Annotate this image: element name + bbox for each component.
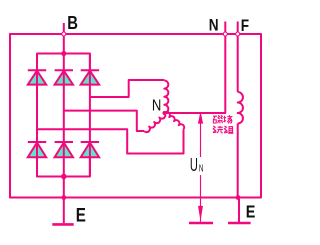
svg-text:N: N xyxy=(152,98,161,115)
junction bottom rail xyxy=(61,174,67,180)
diode VD3 (top row, right) xyxy=(81,70,99,84)
svg-text:E: E xyxy=(246,202,256,222)
wire N from star point to terminal xyxy=(165,34,226,113)
wire column1 through diodes xyxy=(36,54,38,177)
field winding L (磁场绕组) xyxy=(238,92,243,124)
wire F to field winding xyxy=(237,34,239,92)
diode VD5 (bottom row, middle) xyxy=(55,142,73,157)
terminal E right bar xyxy=(228,222,251,225)
junction border field xyxy=(236,195,241,200)
wire phase lead B xyxy=(64,111,144,131)
wire F stub xyxy=(237,22,239,35)
node star point N xyxy=(162,111,166,115)
junction border E left xyxy=(61,195,66,200)
wire E right lead xyxy=(238,198,240,223)
glyph 场 xyxy=(223,115,232,123)
ground bar middle (UN reference) xyxy=(189,222,213,225)
glyph 磁 xyxy=(213,115,223,123)
wire bottom rail xyxy=(37,157,90,176)
wire field winding to ground xyxy=(237,124,239,198)
diode VD6 (bottom row, right) xyxy=(81,142,99,157)
glyph 绕 xyxy=(213,126,223,133)
terminal E left bar xyxy=(52,223,73,226)
stator winding coil3 (lower-right diagonal) xyxy=(165,112,185,129)
svg-text:N: N xyxy=(209,16,219,35)
diode VD2 (top row, middle) xyxy=(55,70,73,84)
terminal F circle xyxy=(236,32,240,36)
svg-text:F: F xyxy=(241,16,249,35)
svg-text:N: N xyxy=(199,162,204,174)
diode VD1 (top row, left) xyxy=(28,70,46,84)
UN dimension arrow line xyxy=(199,114,203,222)
stator winding coil1 (vertical) xyxy=(164,81,168,113)
svg-text:E: E xyxy=(76,204,86,226)
wire phase lead C xyxy=(37,129,184,153)
stator winding coil2 (lower-left diagonal) xyxy=(144,113,165,132)
terminal B circle xyxy=(62,32,66,36)
svg-text:U: U xyxy=(190,155,198,176)
diode VD4 (bottom row, left) xyxy=(28,142,46,157)
wire phase lead A xyxy=(90,80,164,97)
glyph 组 xyxy=(224,126,233,133)
wire N stub xyxy=(224,22,226,35)
wire B stub xyxy=(63,23,65,34)
alternator housing border xyxy=(10,34,261,198)
wire column3 through diodes xyxy=(89,54,91,177)
junction top rail xyxy=(61,51,66,56)
label 磁场绕组 (field winding, drawn glyphs) xyxy=(213,115,233,133)
terminal N circle xyxy=(223,32,227,36)
svg-text:B: B xyxy=(67,12,78,33)
wire top rail xyxy=(37,54,90,71)
wire column2 through diodes from B to E bar xyxy=(63,34,65,223)
